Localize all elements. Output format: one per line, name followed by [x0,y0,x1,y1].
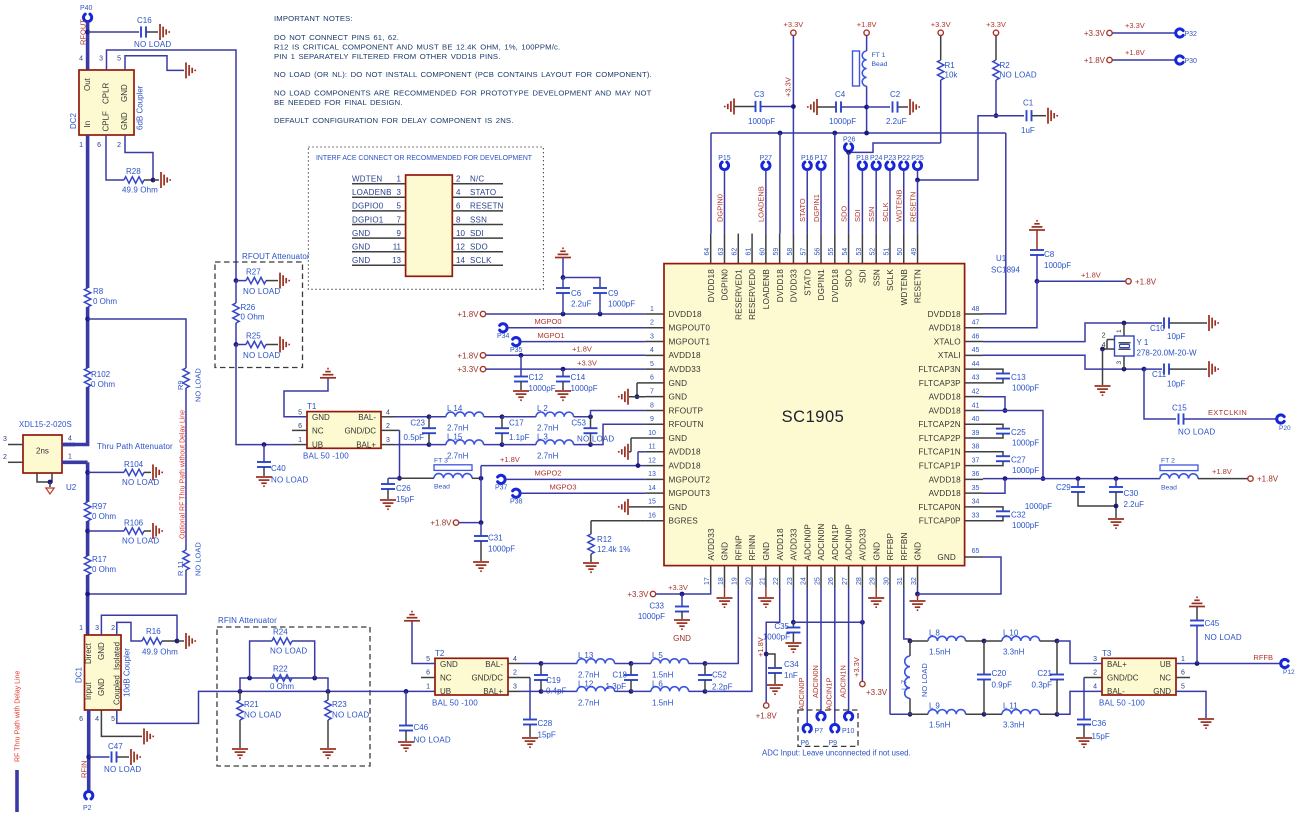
svg-text:MGPO1: MGPO1 [537,331,564,340]
node C29/C30 ground junction [1114,504,1119,509]
svg-text:UB: UB [1160,660,1171,669]
svg-text:+3.3V: +3.3V [1125,21,1145,30]
wire bus to pin 48 [983,133,1006,314]
svg-text:C32: C32 [1011,511,1026,520]
svg-text:R21: R21 [244,700,259,709]
wire EXTCLKIN to C15 [1144,369,1176,419]
IC pin 9 RFOUTN stub [646,423,664,425]
power net +3.3V below pin28 [860,681,865,686]
capacitor C29 1000pF [1077,479,1079,487]
resistor R27 NO LOAD [236,280,246,282]
IC pin 3 MGPOUT1 stub [646,341,664,343]
svg-text:NO LOAD: NO LOAD [271,476,308,485]
wire pin 24 ADCIN0P to P6 [806,588,808,724]
ferrite bead FT2 [1160,465,1198,471]
crystal Y1 278-20.0M-20-W [1115,336,1135,356]
svg-text:L 6: L 6 [652,680,663,689]
wire P23 to pin 51 [889,170,891,234]
svg-text:Coupled: Coupled [112,675,121,705]
svg-text:GND: GND [97,642,106,660]
connector pin 9 wire GND [352,237,406,239]
svg-text:P2: P2 [83,805,92,812]
svg-text:+3.3V: +3.3V [986,20,1006,29]
node crystal pin1 junction [1122,321,1127,326]
node C18 top [629,661,634,666]
svg-text:19: 19 [732,577,739,585]
svg-text:0 Ohm: 0 Ohm [91,380,115,389]
resistor R2 NO LOAD [995,36,997,60]
svg-text:R26: R26 [241,303,256,312]
svg-text:3: 3 [1093,656,1097,663]
svg-text:DGPIO1: DGPIO1 [352,215,384,224]
IC pin 20 RFINN stub [751,566,753,588]
ground at pin 10 [619,444,628,460]
svg-text:2.2uF: 2.2uF [886,117,907,126]
node FT3 right junction [479,476,484,481]
svg-text:C36: C36 [1092,719,1107,728]
node C21 bottom [1055,712,1060,717]
svg-text:P12: P12 [1283,669,1295,676]
svg-text:LOADENB: LOADENB [762,269,771,310]
wire bus to pin 64 [710,133,712,234]
svg-text:GND: GND [352,229,370,238]
wire P22 to pin 50 [903,170,905,234]
svg-text:GND: GND [669,393,688,402]
svg-text:C23: C23 [410,419,425,428]
svg-text:2: 2 [117,142,121,149]
svg-text:8: 8 [650,402,654,409]
svg-text:NC: NC [312,427,324,436]
node C6 bottom [561,312,566,317]
wire pin 27 ADCIN1N to P10 [848,588,850,712]
resistor R25 NO LOAD [236,344,246,346]
svg-text:R104: R104 [124,460,144,469]
IC pin 57 STATO stub [806,234,808,264]
IC pin 4 AVDD18 stub [646,354,664,356]
svg-text:RFIN Attenuator: RFIN Attenuator [218,616,277,625]
svg-text:14: 14 [648,485,656,492]
node C11/EXTCLKIN junction [1142,367,1147,372]
svg-text:UB: UB [312,440,323,449]
wire DC2 pin1 In down (thick RF) [86,135,90,288]
svg-text:R8: R8 [93,287,104,296]
svg-text:32: 32 [911,577,918,585]
wire bus to pin 55 [834,133,836,234]
capacitor C14 1000pF [562,369,564,376]
svg-text:1uF: 1uF [1021,126,1035,135]
wire +3.3V to pin 5 AVDD33 [486,368,646,370]
svg-text:Y 1: Y 1 [1137,338,1149,347]
svg-text:FLTCAP0P: FLTCAP0P [919,517,961,526]
wire bus to pin 59 [779,133,781,234]
node C18 bottom [629,689,634,694]
wire DC2 pin5 GND to ground [125,56,184,71]
wire pin30 corner to L9 [890,713,910,715]
wire P34 to pin 2 [508,327,646,329]
connector pin 1 wire WDTEN [352,183,406,185]
svg-text:5: 5 [111,716,115,723]
svg-text:+3.3V: +3.3V [852,657,861,677]
inductor L7 NO LOAD vertical [909,641,911,656]
node R24 left vertical junction [247,676,252,681]
port P30 [1176,56,1183,64]
node R2/C1/RESETN junction [994,113,999,118]
wire R11 to bypass bottom [88,570,186,594]
connector pin 5 wire DGPIO0 [352,210,406,212]
svg-text:33: 33 [972,513,980,520]
svg-text:DEFAULT CONFIGURATION FOR DELA: DEFAULT CONFIGURATION FOR DELAY COMPONEN… [274,116,513,125]
svg-text:53: 53 [856,248,863,256]
svg-text:U2: U2 [66,483,77,492]
svg-text:10pF: 10pF [1167,380,1185,389]
IC pin 52 SSN stub [875,234,877,264]
svg-text:MGPOUT1: MGPOUT1 [669,337,711,346]
wire pin 45 XTALI to crystal [983,355,1144,369]
inductor L8 1.5nH [910,640,928,642]
svg-text:L 9: L 9 [929,702,940,711]
IC pin 49 RESETN stub [917,234,919,264]
svg-text:T1: T1 [307,402,317,411]
T3 pin2 GND/DC to C36 [1084,677,1102,679]
power net +1.8V right of C8 [1126,279,1131,284]
IC pin 29 GND stub [875,566,877,588]
inductor L6 1.5nH [631,690,651,692]
svg-text:GND: GND [721,542,730,561]
svg-text:27: 27 [842,577,849,585]
node pin35 junction [1003,476,1008,481]
wire T2 pin3 to C19 bottom [520,690,541,692]
svg-text:C16: C16 [137,16,152,25]
resistor R17 0 Ohm [84,556,90,575]
svg-text:C17: C17 [509,419,524,428]
svg-text:NO LOAD: NO LOAD [134,40,171,49]
svg-text:BAL-: BAL- [1107,687,1125,696]
IC pin 41 AVDD18 stub [965,409,983,411]
wire pin 28 AVDD33 to +3.3V [861,588,863,623]
svg-text:SSN: SSN [470,215,487,224]
svg-text:DVDD18: DVDD18 [669,310,703,319]
node crystal ground junction [1100,347,1105,352]
IC pin 44 FLTCAP3N stub [965,368,983,370]
svg-text:L 3: L 3 [537,433,548,442]
svg-text:RFINP: RFINP [734,535,743,561]
svg-text:GND: GND [914,542,923,561]
svg-text:1000pF: 1000pF [571,384,598,393]
svg-text:FT 2: FT 2 [1161,458,1175,465]
svg-text:R12 IS CRITICAL COMPONENT AND: R12 IS CRITICAL COMPONENT AND MUST BE 12… [274,43,560,52]
svg-text:29: 29 [870,577,877,585]
resistor R1 10k [940,36,942,60]
svg-text:GND: GND [312,413,330,422]
svg-text:10: 10 [648,430,656,437]
svg-text:RESERVED0: RESERVED0 [748,269,757,320]
connector pin 4 wire STATO [452,196,503,198]
svg-text:AVDD18: AVDD18 [669,351,701,360]
svg-text:NC: NC [440,674,452,683]
svg-text:T2: T2 [435,649,445,658]
IC pin 62 RESERVED1 stub [737,234,739,264]
node C40 tap [262,442,267,447]
capacitor C10 10pF [1164,317,1169,328]
node C53 bottom [588,442,593,447]
T2 pin5 GND to flipped ground [412,622,435,664]
svg-text:C2: C2 [890,90,901,99]
svg-text:P40: P40 [80,5,93,12]
svg-text:1: 1 [397,175,402,184]
svg-text:63: 63 [718,248,725,256]
svg-text:RFOUTN: RFOUTN [669,420,704,429]
node C20 top [982,639,987,644]
capacitor C45 NO LOAD [1189,597,1205,606]
svg-text:15pF: 15pF [1092,732,1110,741]
port P7 [817,712,825,719]
svg-text:RESERVED1: RESERVED1 [734,269,743,320]
svg-text:RFFB: RFFB [1253,653,1273,662]
node C45 tap [1195,661,1200,666]
IC pin 60 LOADENB stub [765,234,767,264]
svg-text:0 Ohm: 0 Ohm [93,297,117,306]
inductor L12 2.7nH [541,690,577,692]
node L9/L7 bottom junction [908,712,913,717]
resistor R16 49.9 Ohm [142,638,162,644]
svg-text:NO LOAD: NO LOAD [104,765,141,774]
svg-text:23: 23 [787,577,794,585]
svg-text:1nF: 1nF [784,671,798,680]
wire +1.8V node to power symbol [1037,280,1126,282]
svg-text:C13: C13 [1011,373,1026,382]
svg-text:+3.3V: +3.3V [866,688,888,697]
svg-text:2.7nH: 2.7nH [447,424,469,433]
ground at pin 18 [724,588,726,598]
svg-text:+1.8V: +1.8V [500,455,520,464]
wire crystal pin1 [1123,323,1125,336]
svg-text:AVDD33: AVDD33 [790,528,799,560]
IC pin 37 FLTCAP1P stub [965,465,983,467]
svg-text:62: 62 [732,248,739,256]
svg-text:1000pF: 1000pF [488,545,515,554]
wire +1.8V to pin 1 DVDD18 [486,313,646,315]
resistor R102 0 Ohm [84,368,90,387]
svg-text:2.7nH: 2.7nH [447,452,469,461]
IC pin 36 AVDD18 stub [965,478,983,480]
bus +1.8V DVDD18 horizontal [711,132,1006,134]
IC pin 26 ADCIN1P stub [834,566,836,588]
svg-text:2.7nH: 2.7nH [578,671,600,680]
svg-text:DGPIN1: DGPIN1 [817,269,826,301]
svg-text:+1.8V: +1.8V [457,351,479,360]
svg-text:3: 3 [397,188,402,197]
IC pin 61 RESERVED0 stub [751,234,753,264]
IC pin 50 WDTENB stub [903,234,905,264]
svg-text:3.3nH: 3.3nH [1003,721,1025,730]
svg-text:10: 10 [456,229,465,238]
svg-text:6: 6 [650,375,654,382]
svg-text:ADC Input: Leave unconnecte: ADC Input: Leave unconnected if not used… [762,749,911,758]
wire C52 to pin 19 RFINP [705,588,738,664]
capacitor C33 1000pF [681,594,683,607]
resistor R8 0 Ohm [84,288,90,307]
svg-text:C26: C26 [396,484,411,493]
svg-text:P22: P22 [898,155,911,162]
capacitor C23 0.5pF [428,417,430,428]
svg-text:LOADENB: LOADENB [352,188,392,197]
wire bypass branch top [88,319,186,368]
inductor L2 2.7nH [502,416,536,418]
resistor R12 12.4k 1% [588,534,594,554]
svg-text:1000pF: 1000pF [529,384,556,393]
svg-text:MGPOUT2: MGPOUT2 [669,475,711,484]
wire P17 to pin 56 [820,170,822,234]
svg-text:WDTENB: WDTENB [900,269,909,306]
svg-text:49: 49 [911,248,918,256]
svg-text:6: 6 [426,670,430,677]
wire R9 to R11 [185,388,187,550]
svg-text:C10: C10 [1150,324,1165,333]
resistor R9 NO LOAD [183,368,189,388]
node bus FT1 junction [864,131,869,136]
wire RESETN net R2 to P25 [918,116,997,180]
node pin28 rail junction [860,620,865,625]
svg-text:P38: P38 [510,498,523,505]
wire C21 bottom to T3 pin4 [1057,691,1102,714]
IC pin 25 ADCIN0N stub [820,566,822,588]
connector pin 8 wire SSN [452,224,503,226]
svg-text:7: 7 [397,215,402,224]
svg-text:1: 1 [68,454,72,461]
svg-text:Bead: Bead [872,61,888,68]
IC pin 23 AVDD33 stub [792,566,794,588]
IC pin 59 DVDD18 stub [779,234,781,264]
svg-text:3: 3 [95,625,99,632]
svg-text:9: 9 [397,229,402,238]
svg-text:1000pF: 1000pF [1012,521,1039,530]
svg-text:15pF: 15pF [396,495,414,504]
svg-text:FLTCAP1N: FLTCAP1N [918,448,960,457]
svg-text:AVDD33: AVDD33 [707,528,716,560]
svg-text:FT 1: FT 1 [872,52,886,59]
node bypass bottom junction [85,592,90,597]
svg-text:BAL 50 -100: BAL 50 -100 [303,452,349,461]
svg-text:58: 58 [787,248,794,256]
IC pin 56 DGPIN1 stub [820,234,822,264]
svg-text:AVDD18: AVDD18 [929,475,961,484]
svg-text:13: 13 [648,471,656,478]
svg-text:WDTEN: WDTEN [352,175,382,184]
IC pin 17 AVDD33 stub [710,566,712,588]
wire FT3 node down to C31 [480,478,482,522]
svg-text:48: 48 [972,306,980,313]
svg-text:L 8: L 8 [929,629,940,638]
node C35 tap [791,620,796,625]
svg-text:P16: P16 [801,155,814,162]
IC pin 11 AVDD18 stub [646,451,664,453]
svg-text:R2: R2 [1000,61,1011,70]
T1 pin6 NC stub [292,429,307,431]
svg-text:AVDD33: AVDD33 [858,528,867,560]
svg-text:55: 55 [828,248,835,256]
IC pin 31 RFFBN stub [903,566,905,588]
svg-text:C52: C52 [712,671,727,680]
connector J1 body [406,175,453,276]
svg-text:49.9 Ohm: 49.9 Ohm [142,648,178,657]
svg-text:9: 9 [650,416,654,423]
IC pin 21 GND stub [765,566,767,588]
capacitor C40 NO LOAD [263,445,265,462]
node C23 bottom [427,442,432,447]
svg-text:FLTCAP1P: FLTCAP1P [919,461,961,470]
svg-text:P25: P25 [911,155,924,162]
wire pin 10 GND jog [631,437,646,439]
svg-text:P30: P30 [1185,58,1198,65]
svg-text:ADCIN0P: ADCIN0P [845,524,854,561]
svg-text:DO NOT CONNECT PINS 61, 62.: DO NOT CONNECT PINS 61, 62. [274,33,399,42]
svg-text:NO LOAD: NO LOAD [194,368,203,402]
svg-text:NO LOAD: NO LOAD [920,663,929,697]
svg-text:4: 4 [513,656,517,663]
svg-text:GND: GND [937,553,956,562]
svg-text:+1.8V: +1.8V [572,345,592,354]
svg-text:RFINN: RFINN [748,535,757,561]
node bus pin55 junction [832,131,837,136]
svg-text:RFFBN: RFFBN [900,532,909,560]
inductor L3 2.7nH [502,444,536,446]
capacitor C16 NO LOAD [88,31,139,33]
wire crystal pin3 [1123,356,1125,369]
IC pin 58 DVDD33 stub [792,234,794,264]
svg-text:MGPO2: MGPO2 [534,469,561,478]
port P2 [85,791,93,798]
svg-text:RFOUT Attenuator: RFOUT Attenuator [242,252,310,261]
capacitor C52 2.2pF [704,664,706,676]
power net +1.8V right [1248,476,1253,481]
interface connector dotted border [308,147,543,289]
wire DC1 pin4 GND to ground [101,710,142,736]
svg-text:61: 61 [745,248,752,256]
ferrite bead FT1 [853,51,860,86]
svg-text:25: 25 [814,577,821,585]
IC pin 22 AVDD18 stub [779,566,781,588]
svg-text:GND: GND [673,634,691,643]
svg-text:Thru Path Attenuator: Thru Path Attenuator [97,442,173,451]
node C31 junction [479,520,484,525]
wire pin 16 BGRES to R12 [591,520,646,522]
node SDO/P26/R1 junction [848,151,850,154]
capacitor C3 [725,99,734,115]
resistor R106 NO LOAD [88,530,124,532]
resistor R28 49.9 Ohm [124,177,144,183]
svg-text:C40: C40 [271,464,286,473]
ground at pin 32 [917,594,919,600]
IC pin 14 MGPOUT3 stub [646,492,664,494]
svg-text:SDI: SDI [470,229,484,238]
wire FT3 to pin12 rail [480,466,482,479]
svg-text:GND: GND [872,542,881,561]
wire P37 to pin 13 [506,478,646,480]
svg-text:ADCIN0P: ADCIN0P [797,677,806,710]
svg-text:46: 46 [972,333,980,340]
svg-text:1000pF: 1000pF [1025,502,1052,511]
svg-text:15pF: 15pF [538,731,556,740]
capacitor C21 0.3pF [1056,641,1058,675]
svg-text:+1.8V: +1.8V [1081,271,1101,280]
svg-text:3: 3 [3,436,7,443]
svg-text:+1.8V: +1.8V [1257,475,1279,484]
svg-text:3: 3 [650,333,654,340]
T3 pin5 GND to ground [1176,691,1206,718]
wire +1.8V to FT1 [866,36,868,51]
capacitor C8 1000pF [1036,230,1038,250]
IC pin 42 AVDD18 stub [965,396,983,398]
